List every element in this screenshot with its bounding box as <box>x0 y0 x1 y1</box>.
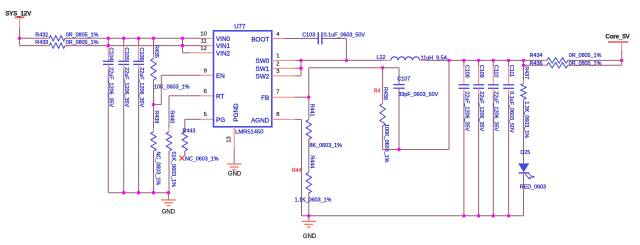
svg-text:1.3K_0603_1%: 1.3K_0603_1% <box>523 101 529 138</box>
svg-text:22uF_1206_35V: 22uF_1206_35V <box>493 91 499 131</box>
svg-text:LMR51450: LMR51450 <box>235 130 263 136</box>
capacitor C104 22uF <box>107 38 109 46</box>
wire EN net <box>201 74 214 76</box>
wire FB vertical <box>308 68 310 97</box>
resistor R436 0R <box>544 64 547 66</box>
svg-text:R433: R433 <box>35 40 48 46</box>
svg-text:12: 12 <box>200 46 206 52</box>
svg-text:GND: GND <box>162 210 176 216</box>
svg-text:22uF_1206_35V: 22uF_1206_35V <box>123 67 129 107</box>
capacitor C111 <box>508 60 510 66</box>
svg-text:C111: C111 <box>508 65 514 77</box>
svg-text:D25: D25 <box>520 150 530 156</box>
wire VIN row B left <box>20 45 50 47</box>
capacitor C103 0.1uF <box>317 32 319 44</box>
resistor R434 0R <box>544 59 547 61</box>
svg-text:R437: R437 <box>523 66 529 79</box>
wire VIN row A left <box>20 37 50 39</box>
svg-text:C103: C103 <box>302 33 315 39</box>
svg-text:SW1: SW1 <box>256 66 270 73</box>
svg-text:SW0: SW0 <box>256 58 270 65</box>
svg-text:C110: C110 <box>493 65 499 78</box>
wire SW pins tie <box>272 59 295 61</box>
resistor R441 8K <box>308 97 310 119</box>
svg-text:GND: GND <box>303 234 317 240</box>
svg-text:4: 4 <box>276 32 280 38</box>
op-amp U77 LMR51450 regulator body <box>214 31 272 127</box>
capacitor C110 <box>492 60 494 66</box>
svg-text:C108: C108 <box>463 65 469 78</box>
svg-text:R441: R441 <box>308 104 314 117</box>
svg-text:22uF_1206_35V: 22uF_1206_35V <box>478 91 484 131</box>
node SW junctions <box>299 59 302 62</box>
wire FB pin stub <box>272 96 295 98</box>
svg-text:NC_0603_1%: NC_0603_1% <box>185 157 219 163</box>
svg-text:AGND: AGND <box>251 117 270 124</box>
svg-text:8: 8 <box>276 112 279 118</box>
svg-text:C109: C109 <box>478 65 484 78</box>
svg-text:R444: R444 <box>308 155 314 168</box>
svg-text:0R_0805_1%: 0R_0805_1% <box>569 53 602 59</box>
svg-text:U77: U77 <box>234 24 246 30</box>
wire R436 branch <box>523 60 525 65</box>
wire FB bottom connector <box>383 149 449 151</box>
svg-text:7: 7 <box>276 90 279 96</box>
pin 13 PGND stub <box>233 127 235 149</box>
svg-text:VIN2: VIN2 <box>216 51 230 58</box>
svg-text:0R_0805_1%: 0R_0805_1% <box>66 40 99 46</box>
svg-text:33pF_0603_50V: 33pF_0603_50V <box>398 92 438 98</box>
svg-text:R438: R438 <box>382 87 388 100</box>
wire SYS_12V vertical <box>19 18 21 28</box>
svg-text:C106: C106 <box>138 48 144 61</box>
diode D25 LED <box>518 163 529 172</box>
svg-text:RT: RT <box>216 93 224 100</box>
svg-text:10: 10 <box>200 31 206 37</box>
wire PG net <box>201 118 214 120</box>
resistor R439 NC <box>153 105 155 132</box>
wire R436 to Core_5V <box>568 64 622 66</box>
svg-text:Core_5V: Core_5V <box>605 34 630 41</box>
wire AGND net <box>272 118 295 120</box>
wire BOOT net <box>272 38 285 40</box>
capacitor C109 <box>478 60 480 66</box>
svg-text:100K_0603_1%: 100K_0603_1% <box>383 124 389 163</box>
svg-text:C105: C105 <box>123 48 129 61</box>
svg-text:51K_0603_1%: 51K_0603_1% <box>170 152 176 188</box>
ground AGND <box>308 216 310 221</box>
capacitor C105 22uF <box>123 38 125 46</box>
resistor R444 1.1K <box>308 169 310 172</box>
svg-text:0.1uF_0603_50V: 0.1uF_0603_50V <box>324 33 366 39</box>
svg-text:L22: L22 <box>377 55 386 61</box>
LED arrows <box>525 173 532 179</box>
svg-text:5: 5 <box>204 112 207 118</box>
svg-text:VIN1: VIN1 <box>216 43 230 50</box>
wire VIN2 pin 12 stub <box>183 52 191 54</box>
svg-text:R435: R435 <box>153 45 159 58</box>
wire D25 cathode to rail <box>523 173 525 216</box>
svg-text:R44: R44 <box>292 168 301 174</box>
resistor R435 10K <box>153 38 155 58</box>
svg-text:SW2: SW2 <box>256 74 270 81</box>
resistor R443 NC <box>184 128 186 131</box>
svg-text:2: 2 <box>276 62 279 68</box>
svg-text:NC_0603_1%: NC_0603_1% <box>155 152 161 186</box>
svg-text:11: 11 <box>201 39 207 45</box>
capacitor C107 33pF <box>393 84 404 86</box>
node Core_5V junction <box>620 59 623 62</box>
svg-text:PG: PG <box>216 117 225 124</box>
svg-text:PGND: PGND <box>233 103 240 122</box>
svg-text:R434: R434 <box>530 53 543 59</box>
svg-text:C104: C104 <box>108 48 114 61</box>
svg-text:R436: R436 <box>530 61 543 67</box>
svg-text:R432: R432 <box>35 33 48 39</box>
svg-text:1: 1 <box>276 54 279 60</box>
wire BOOT to SW <box>322 38 347 40</box>
svg-text:GND: GND <box>228 172 242 178</box>
svg-text:22uF_1206_35V: 22uF_1206_35V <box>108 67 114 107</box>
resistor R440 51K <box>168 128 170 131</box>
svg-text:C107: C107 <box>397 76 410 82</box>
node VIN-A junction <box>18 37 21 40</box>
capacitor C108 <box>463 60 465 66</box>
resistor R437 1.3K <box>523 65 525 83</box>
svg-text:BOOT: BOOT <box>251 36 269 43</box>
node EN junction <box>152 103 155 106</box>
svg-text:22uF_1206_35V: 22uF_1206_35V <box>463 91 469 131</box>
svg-text:VIN0: VIN0 <box>216 36 230 43</box>
svg-text:0R_0805_1%: 0R_0805_1% <box>66 33 99 39</box>
svg-text:1.1K_0603_1%: 1.1K_0603_1% <box>295 198 332 204</box>
svg-text:8K_0603_1%: 8K_0603_1% <box>310 143 343 149</box>
wire RT net <box>201 95 214 97</box>
node bottom rail junctions <box>307 214 310 217</box>
svg-text:10K_0603_1%: 10K_0603_1% <box>154 85 190 91</box>
node BOOT-SW junction <box>345 59 348 62</box>
resistor R433 <box>46 45 49 47</box>
svg-text:R443: R443 <box>183 128 196 134</box>
svg-text:EN: EN <box>216 73 225 80</box>
wire connector up to VOUT <box>448 60 450 149</box>
wire bottom ground rail <box>302 215 524 217</box>
svg-text:22uF_1206_35V: 22uF_1206_35V <box>138 67 144 107</box>
wire VOUT rail <box>420 59 427 61</box>
svg-text:SYS_12V: SYS_12V <box>5 10 32 17</box>
svg-text:3: 3 <box>276 69 279 75</box>
svg-text:6: 6 <box>204 89 207 95</box>
no-connect X on R443 <box>179 156 184 161</box>
wire R434 to Core_5V <box>568 59 622 61</box>
wire VIN row B right <box>65 45 200 47</box>
svg-text:0.1uF_0603_50V: 0.1uF_0603_50V <box>508 91 514 133</box>
wire VIN row A right <box>65 37 200 39</box>
ground left <box>167 193 169 200</box>
resistor R432 <box>46 37 49 39</box>
ground pin13 <box>233 157 235 164</box>
resistor R438 100K <box>382 68 384 104</box>
svg-text:9: 9 <box>204 69 207 75</box>
node VIN tie vertical <box>182 38 184 53</box>
svg-text:0R_0805_1%: 0R_0805_1% <box>569 61 602 67</box>
svg-text:R440: R440 <box>169 110 175 123</box>
node C104 row B junction <box>107 44 110 47</box>
node VOUT junctions <box>447 59 450 62</box>
wire SW rail to L22 <box>301 59 384 61</box>
inductor L22 11uH <box>391 57 420 61</box>
capacitor C106 22uF <box>138 38 140 46</box>
wire left ground rail <box>108 192 168 194</box>
svg-text:13: 13 <box>227 136 233 142</box>
svg-text:R4: R4 <box>374 89 381 95</box>
node R438 top junction <box>381 66 384 69</box>
wire FB top run <box>309 67 383 69</box>
svg-text:FB: FB <box>261 95 269 102</box>
node C107 bottom junction <box>397 148 400 151</box>
node FB junction <box>307 96 310 99</box>
svg-text:R439: R439 <box>153 110 159 123</box>
